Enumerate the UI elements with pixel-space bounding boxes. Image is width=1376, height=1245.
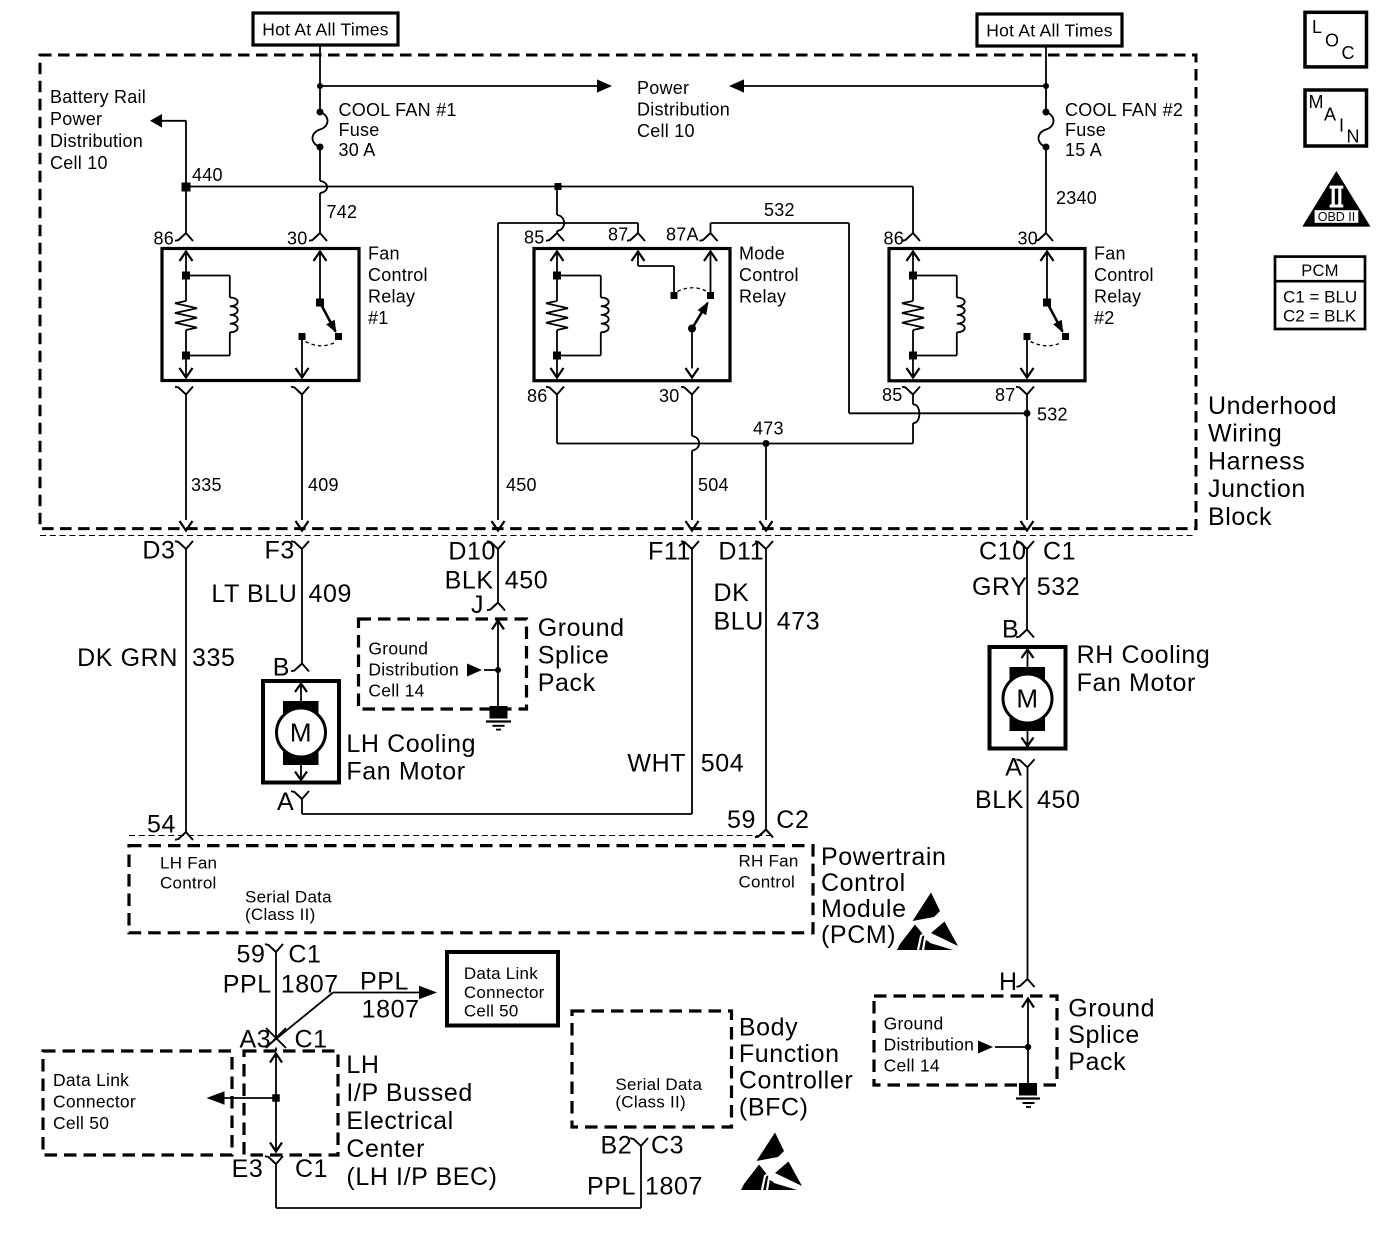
svg-text:Hot At All Times: Hot At All Times: [262, 20, 389, 40]
svg-text:O: O: [1325, 31, 1339, 51]
svg-text:C: C: [1342, 43, 1355, 63]
svg-text:C1: C1: [1043, 538, 1076, 566]
svg-text:85: 85: [524, 228, 545, 248]
svg-text:M: M: [1016, 684, 1038, 714]
svg-text:A: A: [277, 788, 294, 816]
svg-text:86: 86: [154, 229, 175, 249]
svg-text:87: 87: [608, 225, 629, 245]
svg-text:LH Cooling: LH Cooling: [346, 730, 476, 758]
svg-text:Cell 50: Cell 50: [464, 1002, 519, 1021]
svg-text:Module: Module: [821, 895, 907, 923]
svg-text:532: 532: [1037, 405, 1068, 425]
svg-text:M: M: [290, 718, 312, 748]
svg-text:473: 473: [777, 608, 821, 636]
svg-text:2340: 2340: [1056, 188, 1097, 208]
svg-text:A: A: [1005, 754, 1022, 782]
svg-text:LH: LH: [346, 1051, 379, 1079]
svg-text:Control: Control: [739, 265, 799, 285]
svg-text:Block: Block: [1208, 503, 1272, 531]
svg-text:Cell 10: Cell 10: [50, 153, 108, 173]
svg-text:504: 504: [701, 750, 745, 778]
svg-text:Fuse: Fuse: [1065, 120, 1106, 140]
svg-text:C1: C1: [288, 941, 321, 969]
svg-text:532: 532: [764, 200, 795, 220]
svg-text:PPL: PPL: [587, 1173, 636, 1201]
svg-text:440: 440: [192, 165, 223, 185]
svg-text:LH Fan: LH Fan: [160, 854, 217, 873]
svg-text:B: B: [1002, 616, 1019, 644]
svg-text:WHT: WHT: [627, 750, 686, 778]
svg-text:59: 59: [237, 941, 266, 969]
svg-text:I/P Bussed: I/P Bussed: [346, 1079, 472, 1107]
svg-text:M: M: [1309, 92, 1324, 112]
svg-text:B2: B2: [601, 1132, 633, 1160]
svg-text:30 A: 30 A: [339, 140, 376, 160]
svg-text:A: A: [1324, 105, 1336, 125]
svg-text:Fan: Fan: [1094, 244, 1126, 264]
svg-text:Ground: Ground: [884, 1014, 944, 1034]
svg-text:Underhood: Underhood: [1208, 392, 1337, 420]
svg-text:D11: D11: [718, 538, 764, 566]
svg-text:Battery Rail: Battery Rail: [50, 87, 146, 107]
svg-text:C2: C2: [776, 806, 809, 834]
svg-text:450: 450: [505, 567, 549, 595]
svg-text:Body: Body: [739, 1014, 798, 1042]
svg-text:473: 473: [753, 419, 784, 439]
svg-text:Electrical: Electrical: [346, 1107, 453, 1135]
svg-text:A3: A3: [240, 1026, 272, 1054]
svg-text:85: 85: [882, 385, 903, 405]
svg-text:742: 742: [327, 202, 358, 222]
svg-text:504: 504: [698, 475, 729, 495]
svg-text:30: 30: [287, 229, 308, 249]
svg-text:#1: #1: [368, 308, 389, 328]
svg-text:(Class II): (Class II): [615, 1093, 686, 1112]
svg-text:Ground: Ground: [1068, 995, 1155, 1023]
svg-text:335: 335: [191, 475, 222, 495]
svg-text:GRY: GRY: [972, 573, 1028, 601]
svg-text:(Class II): (Class II): [245, 905, 316, 924]
svg-text:Power: Power: [637, 78, 689, 98]
svg-text:C1 = BLU: C1 = BLU: [1283, 288, 1357, 307]
svg-text:BLU: BLU: [714, 608, 764, 636]
svg-text:Pack: Pack: [538, 669, 596, 697]
svg-text:Serial Data: Serial Data: [245, 888, 332, 907]
svg-text:Serial Data: Serial Data: [615, 1075, 702, 1094]
svg-text:Hot At All Times: Hot At All Times: [986, 21, 1113, 41]
svg-text:59: 59: [727, 806, 756, 834]
svg-text:PPL: PPL: [223, 971, 272, 999]
svg-text:DK GRN: DK GRN: [77, 644, 178, 672]
svg-text:Cell 10: Cell 10: [637, 121, 695, 141]
svg-text:F11: F11: [648, 538, 691, 566]
svg-text:54: 54: [147, 811, 176, 839]
svg-text:(PCM): (PCM): [821, 921, 896, 949]
svg-text:Relay: Relay: [1094, 287, 1141, 307]
svg-text:30: 30: [1018, 229, 1039, 249]
svg-text:PCM: PCM: [1301, 262, 1339, 280]
svg-text:450: 450: [1037, 786, 1081, 814]
svg-text:86: 86: [884, 229, 905, 249]
svg-text:Cell 14: Cell 14: [368, 681, 424, 701]
svg-text:C1: C1: [295, 1155, 328, 1183]
svg-text:Distribution: Distribution: [637, 100, 730, 120]
svg-text:409: 409: [309, 580, 353, 608]
svg-text:1807: 1807: [362, 996, 420, 1024]
svg-text:87A: 87A: [666, 225, 699, 245]
svg-text:Distribution: Distribution: [884, 1035, 975, 1055]
svg-text:F3: F3: [265, 537, 295, 565]
svg-text:Connector: Connector: [464, 983, 545, 1002]
svg-text:Ground: Ground: [368, 639, 428, 659]
svg-text:N: N: [1347, 127, 1360, 147]
svg-text:J: J: [471, 591, 484, 619]
svg-text:BLK: BLK: [975, 786, 1024, 814]
svg-text:Wiring: Wiring: [1208, 420, 1282, 448]
svg-text:Control: Control: [160, 874, 217, 893]
svg-text:87: 87: [995, 385, 1016, 405]
svg-text:COOL FAN #1: COOL FAN #1: [339, 100, 457, 120]
svg-text:1807: 1807: [645, 1173, 703, 1201]
svg-text:Distribution: Distribution: [50, 131, 143, 151]
svg-text:Relay: Relay: [739, 287, 786, 307]
svg-text:Cell 50: Cell 50: [53, 1113, 109, 1133]
svg-text:Control: Control: [821, 869, 906, 897]
svg-text:Fan Motor: Fan Motor: [1077, 669, 1196, 697]
svg-text:409: 409: [308, 475, 339, 495]
svg-text:Control: Control: [368, 265, 428, 285]
svg-text:Mode: Mode: [739, 244, 785, 264]
svg-text:Splice: Splice: [538, 641, 610, 669]
svg-text:BLK: BLK: [445, 567, 494, 595]
svg-text:L: L: [1312, 17, 1322, 37]
svg-text:LT BLU: LT BLU: [211, 580, 297, 608]
svg-text:Fan Motor: Fan Motor: [346, 758, 465, 786]
svg-text:C10: C10: [979, 538, 1027, 566]
svg-text:I: I: [1339, 116, 1344, 136]
svg-text:Connector: Connector: [53, 1092, 136, 1112]
svg-text:335: 335: [192, 644, 236, 672]
svg-text:RH Fan: RH Fan: [739, 852, 799, 871]
svg-text:Cell 14: Cell 14: [884, 1056, 940, 1076]
svg-text:(BFC): (BFC): [739, 1093, 809, 1121]
svg-text:Junction: Junction: [1208, 475, 1306, 503]
svg-text:Controller: Controller: [739, 1067, 853, 1095]
svg-text:86: 86: [527, 386, 548, 406]
svg-text:Powertrain: Powertrain: [821, 843, 947, 871]
svg-text:#2: #2: [1094, 308, 1115, 328]
svg-text:DK: DK: [714, 579, 750, 607]
svg-text:Function: Function: [739, 1040, 840, 1068]
svg-text:15 A: 15 A: [1065, 140, 1102, 160]
svg-text:RH Cooling: RH Cooling: [1077, 641, 1211, 669]
svg-text:OBD II: OBD II: [1318, 210, 1356, 224]
svg-text:PPL: PPL: [360, 968, 409, 996]
svg-text:1807: 1807: [281, 971, 339, 999]
svg-text:450: 450: [506, 475, 537, 495]
svg-text:Ground: Ground: [538, 614, 625, 642]
svg-text:(LH I/P BEC): (LH I/P BEC): [346, 1163, 497, 1191]
svg-text:H: H: [999, 968, 1018, 996]
svg-text:Pack: Pack: [1068, 1048, 1126, 1076]
svg-text:Control: Control: [739, 873, 796, 892]
svg-text:Relay: Relay: [368, 287, 415, 307]
svg-text:Fuse: Fuse: [339, 120, 380, 140]
svg-text:Harness: Harness: [1208, 447, 1305, 475]
svg-text:Data Link: Data Link: [464, 964, 538, 983]
svg-text:532: 532: [1037, 573, 1081, 601]
svg-text:Distribution: Distribution: [368, 660, 459, 680]
svg-text:Splice: Splice: [1068, 1021, 1140, 1049]
svg-text:D10: D10: [448, 538, 496, 566]
svg-text:Control: Control: [1094, 265, 1154, 285]
svg-text:Data Link: Data Link: [53, 1070, 129, 1090]
svg-text:C2 = BLK: C2 = BLK: [1283, 307, 1357, 326]
svg-text:E3: E3: [232, 1155, 264, 1183]
svg-text:D3: D3: [142, 537, 175, 565]
svg-text:C1: C1: [295, 1026, 328, 1054]
svg-text:Fan: Fan: [368, 244, 400, 264]
svg-text:Center: Center: [346, 1135, 425, 1163]
svg-text:B: B: [273, 654, 290, 682]
svg-text:Power: Power: [50, 109, 102, 129]
svg-text:COOL FAN #2: COOL FAN #2: [1065, 100, 1183, 120]
svg-text:30: 30: [659, 386, 680, 406]
svg-text:C3: C3: [651, 1132, 684, 1160]
